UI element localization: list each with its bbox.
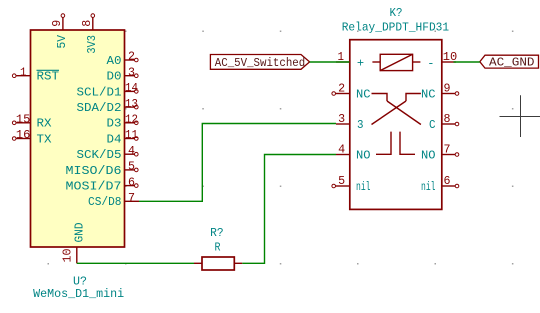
pin 16 TX <box>12 129 51 146</box>
svg-text:1: 1 <box>20 66 27 79</box>
svg-text:nil: nil <box>356 180 371 194</box>
svg-text:3: 3 <box>128 66 135 79</box>
pin 15 RX <box>12 114 51 131</box>
svg-text:RX: RX <box>37 117 52 131</box>
relay pin 9 NC <box>421 83 459 102</box>
relay pin 5 nil <box>332 175 371 194</box>
pin 5 MISO/D6 <box>66 161 139 178</box>
pin 3 D0 <box>107 66 139 83</box>
svg-text:13: 13 <box>125 98 138 111</box>
relay pin 2 NC <box>332 83 371 102</box>
svg-text:SDA/D2: SDA/D2 <box>77 101 122 115</box>
relay contacts NC leads <box>372 94 421 102</box>
svg-text:K?: K? <box>390 6 403 20</box>
global label AC_GND <box>480 55 539 69</box>
pin 2 A0 <box>107 51 139 68</box>
relay pin 10 (-) <box>442 51 458 64</box>
svg-text:9: 9 <box>444 83 451 96</box>
wire CS/D8 to relay pin 3 <box>139 124 336 202</box>
relay pin 6 nil <box>421 175 459 194</box>
svg-text:4: 4 <box>128 145 135 158</box>
cursor crosshair <box>500 95 540 137</box>
svg-text:5V: 5V <box>55 34 69 48</box>
svg-text:GND: GND <box>73 223 87 243</box>
svg-text:D0: D0 <box>107 70 122 84</box>
relay pin 8 C <box>429 113 459 132</box>
component K1 Relay_DPDT_HFD31 body <box>350 40 442 210</box>
svg-text:5: 5 <box>128 161 135 174</box>
pin 4 SCK/D5 <box>77 145 139 162</box>
svg-text:10: 10 <box>62 248 75 262</box>
svg-text:3: 3 <box>338 113 345 126</box>
pin 14 SCL/D1 <box>77 82 139 99</box>
svg-text:SCK/D5: SCK/D5 <box>77 148 122 162</box>
svg-text:RST: RST <box>37 70 60 84</box>
wire AC_5V_Switched to relay pin 1 <box>310 61 350 63</box>
pin 13 SDA/D2 <box>77 98 139 115</box>
wire resistor R1 to relay pin 4 <box>242 155 336 264</box>
svg-text:14: 14 <box>125 82 138 95</box>
relay contact arms (crossing diagonals) <box>372 101 421 125</box>
pin 8 3V3 (top) <box>81 14 99 54</box>
svg-text:D3: D3 <box>107 117 122 131</box>
svg-text:AC_5V_Switched: AC_5V_Switched <box>215 57 305 70</box>
svg-text:5: 5 <box>338 175 345 188</box>
svg-text:TX: TX <box>37 132 52 146</box>
svg-text:nil: nil <box>421 180 436 194</box>
relay pin 3 <box>336 113 364 132</box>
svg-text:8: 8 <box>81 20 94 27</box>
svg-text:16: 16 <box>16 129 31 142</box>
pin 10 GND (bottom) <box>62 223 87 264</box>
pin 1 RST <box>12 66 59 83</box>
svg-text:6: 6 <box>128 176 135 189</box>
svg-text:8: 8 <box>444 113 451 126</box>
pin 11 D4 <box>107 129 139 146</box>
svg-text:SCL/D1: SCL/D1 <box>77 85 122 99</box>
svg-text:2: 2 <box>338 83 345 96</box>
resistor R1 <box>194 257 242 270</box>
svg-text:3V3: 3V3 <box>85 35 99 54</box>
svg-text:WeMos_D1_mini: WeMos_D1_mini <box>33 287 124 301</box>
svg-text:Relay_DPDT_HFD31: Relay_DPDT_HFD31 <box>342 21 449 35</box>
global label AC_5V_Switched <box>210 55 309 71</box>
pin 12 D3 <box>107 114 139 131</box>
pin 9 5V (top) <box>51 14 69 49</box>
wire GND to resistor R1 <box>77 262 194 264</box>
svg-text:9: 9 <box>51 20 64 27</box>
svg-text:CS/D8: CS/D8 <box>88 195 122 209</box>
svg-text:2: 2 <box>128 51 135 64</box>
pin 6 MOSI/D7 <box>66 176 139 193</box>
svg-text:R: R <box>215 241 221 255</box>
svg-text:7: 7 <box>128 192 135 205</box>
wire relay pin 10 to AC_GND <box>454 61 480 63</box>
relay pin 4 NO <box>336 144 371 163</box>
svg-text:MOSI/D7: MOSI/D7 <box>66 180 122 194</box>
svg-text:6: 6 <box>444 175 451 188</box>
relay pin 1 (+) <box>336 51 350 64</box>
svg-text:NO: NO <box>356 148 371 162</box>
svg-text:MISO/D6: MISO/D6 <box>66 164 122 178</box>
svg-text:3: 3 <box>357 118 364 132</box>
svg-text:R?: R? <box>210 226 224 240</box>
svg-text:15: 15 <box>16 114 31 127</box>
svg-text:12: 12 <box>125 114 138 127</box>
svg-text:NC: NC <box>356 87 371 101</box>
svg-text:11: 11 <box>125 129 138 142</box>
svg-text:AC_GND: AC_GND <box>489 57 535 70</box>
svg-text:A0: A0 <box>107 54 122 68</box>
component U1 WeMos_D1_mini body <box>31 30 125 247</box>
svg-text:4: 4 <box>338 144 345 157</box>
relay pin 7 NO <box>421 144 459 163</box>
svg-text:D4: D4 <box>107 132 122 146</box>
relay coil <box>357 54 435 70</box>
pin 7 CS/D8 <box>88 192 139 209</box>
relay NO contacts <box>376 132 415 155</box>
svg-text:C: C <box>429 118 436 132</box>
svg-text:NO: NO <box>421 148 436 162</box>
svg-text:-: - <box>427 56 434 70</box>
svg-text:NC: NC <box>421 87 436 101</box>
svg-text:+: + <box>357 56 364 70</box>
svg-text:7: 7 <box>444 144 451 157</box>
